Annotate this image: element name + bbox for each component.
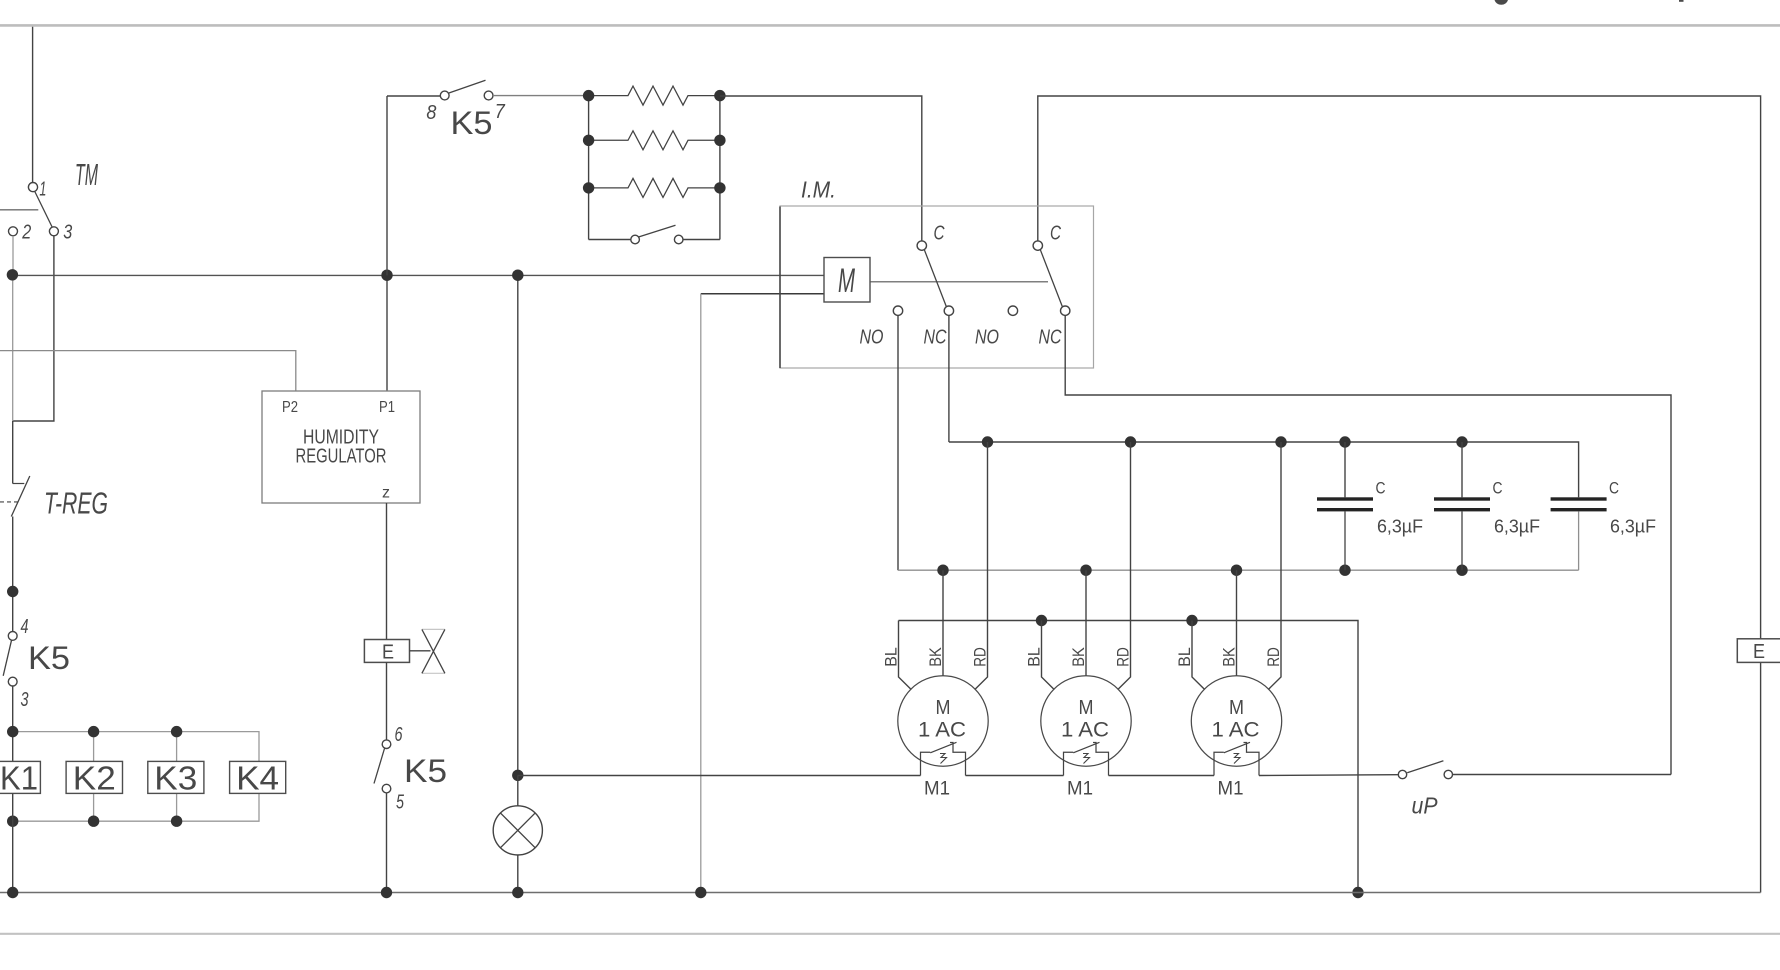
switch K5 contact 3 xyxy=(8,677,17,686)
bypass switch contact left xyxy=(631,235,640,244)
cam switch 2 contact NO xyxy=(1008,306,1017,315)
svg-text:1 AC: 1 AC xyxy=(1212,719,1260,742)
wire K3 bottom lead xyxy=(176,793,178,821)
svg-text:BL: BL xyxy=(1175,647,1194,667)
wire motor1 to motor2 xyxy=(966,775,1064,777)
svg-text:K5: K5 xyxy=(28,640,70,676)
junction resistor right bus low xyxy=(714,182,725,193)
svg-text:z: z xyxy=(382,485,390,502)
switch K5 contact 5 xyxy=(382,784,391,793)
svg-text:3: 3 xyxy=(21,689,29,711)
wire lamp to bottom bus xyxy=(517,855,519,893)
switch K5 contact 4 xyxy=(8,632,17,641)
svg-text:I.M.: I.M. xyxy=(801,177,836,203)
bypass switch blade xyxy=(639,225,676,237)
wire BK gray bus xyxy=(898,569,1579,571)
switch TM contact 3 xyxy=(49,227,58,236)
I.M. enclosure box xyxy=(780,206,1094,368)
wire motor 2 BK lead xyxy=(1085,570,1087,676)
junction RD bus motor3 xyxy=(1275,436,1286,447)
svg-text:M: M xyxy=(936,697,951,719)
svg-text:M: M xyxy=(1079,697,1094,719)
contact T-REG blade xyxy=(11,476,30,517)
wire motor 2 RD lead xyxy=(1118,442,1131,690)
svg-text:1 AC: 1 AC xyxy=(1061,719,1109,742)
switch TM blade 1-3 xyxy=(35,192,53,228)
wire motor 3 RD lead xyxy=(1268,442,1281,690)
svg-text:BL: BL xyxy=(882,647,901,667)
switch TM contact 1 xyxy=(28,183,37,192)
valve coil E xyxy=(364,640,409,664)
junction BK bus cap2 xyxy=(1456,565,1467,576)
svg-text:M1: M1 xyxy=(924,779,950,800)
wire main line to motor M of I.M. xyxy=(13,274,824,276)
wire K3 top lead xyxy=(176,732,178,762)
svg-text:K5: K5 xyxy=(451,105,493,141)
svg-text:7: 7 xyxy=(495,101,506,123)
switch K5 blade (4-3) xyxy=(3,640,11,676)
junction relay bottom bus K1 xyxy=(7,816,18,827)
wire motor M lower lead horizontal xyxy=(701,293,824,295)
svg-text:C: C xyxy=(1609,479,1619,498)
thermal protector motor 2 xyxy=(1064,742,1109,775)
cropped text remnant top right xyxy=(1495,0,1509,5)
wire NC1 to RD bus xyxy=(948,315,950,442)
capacitor C3 6.3uF xyxy=(1551,497,1607,570)
wire motor 3 BL lead xyxy=(1192,621,1205,690)
wire bottom bus xyxy=(0,892,1761,894)
switch uP contact left xyxy=(1398,770,1406,778)
junction relay top bus K2 xyxy=(88,726,99,737)
bypass switch contact right xyxy=(674,235,683,244)
lamp HL1 xyxy=(493,806,542,855)
junction bottom bus gray M lead xyxy=(695,887,706,898)
svg-text:6,3µF: 6,3µF xyxy=(1610,517,1656,537)
wire left rail 421 to T-REG xyxy=(12,421,14,484)
svg-text:TM: TM xyxy=(75,157,98,192)
junction node K5-8 rail / main line xyxy=(381,270,392,281)
junction resistor right bus top xyxy=(714,90,725,101)
humidity regulator U1 xyxy=(262,391,420,503)
wire resistor bypass switch left xyxy=(589,239,631,241)
valve body symbol xyxy=(422,629,445,673)
svg-text:8: 8 xyxy=(426,102,436,124)
motor M1 #1 (1 AC) xyxy=(898,676,988,766)
switch K5 blade (6-5) xyxy=(374,749,385,784)
cam switch 1 contact C xyxy=(917,241,926,250)
wire valve coil to valve body xyxy=(410,650,431,652)
junction bottom bus left rail xyxy=(7,887,18,898)
wire motor 3 BK lead xyxy=(1236,570,1238,676)
wire resistor bypass switch right xyxy=(683,239,720,241)
wire relay bottom bus xyxy=(13,793,259,821)
svg-text:P2: P2 xyxy=(282,399,298,416)
wire K5 contact 3 to relay bus xyxy=(12,686,14,761)
junction RD bus cap1 xyxy=(1339,436,1350,447)
junction BK bus motor3 xyxy=(1231,565,1242,576)
resistor R1 xyxy=(589,86,720,105)
resistor R3 xyxy=(589,178,720,197)
bottom border rule (frame) xyxy=(0,933,1780,935)
wire K5 contact 5 to bottom bus xyxy=(386,793,388,893)
svg-text:NC: NC xyxy=(1039,327,1062,349)
wire valve E to K5 contact 6 xyxy=(386,662,388,740)
wire right rail below E to bottom bus xyxy=(1760,662,1762,892)
wire motor 1 BL lead xyxy=(899,621,912,690)
junction node on left rail y588 xyxy=(7,586,18,597)
svg-text:6: 6 xyxy=(395,724,404,746)
wire uP to NC2 riser xyxy=(1453,774,1672,776)
svg-text:6,3µF: 6,3µF xyxy=(1494,517,1540,537)
junction RD bus motor1 xyxy=(982,436,993,447)
wire to K5 contact 8 xyxy=(387,95,440,97)
wire motor 2 BL lead xyxy=(1042,621,1055,690)
junction node A (left rail / main line) xyxy=(7,269,18,280)
wire TM contact 3 down and left xyxy=(13,236,54,421)
junction BL bus motor3 xyxy=(1186,615,1197,626)
svg-text:K5: K5 xyxy=(404,753,447,789)
wire NC2 to uP line xyxy=(1065,315,1671,774)
svg-text:1 AC: 1 AC xyxy=(918,719,966,742)
switch TM contact 2 xyxy=(9,227,18,236)
timer motor M box xyxy=(824,258,870,303)
junction BL bus motor2 xyxy=(1036,615,1047,626)
resistor R2 xyxy=(589,131,720,150)
cam switch 1 contact NO xyxy=(893,306,902,315)
wire RD top bus xyxy=(949,442,1579,497)
switch K5 blade (8-7) xyxy=(449,80,486,93)
wire junction to lamp xyxy=(517,775,519,806)
capacitor C1 6.3uF xyxy=(1317,442,1373,570)
svg-text:RD: RD xyxy=(1114,647,1133,667)
svg-text:C: C xyxy=(934,222,945,244)
heater/element E (right) xyxy=(1737,639,1780,663)
svg-text:E: E xyxy=(1753,641,1765,663)
svg-text:K4: K4 xyxy=(236,760,279,797)
junction resistor left bus mid xyxy=(583,135,594,146)
relay coil K4 xyxy=(230,760,286,797)
T-REG actuator dash-dot link xyxy=(0,501,21,503)
wire motor3 to uP switch xyxy=(1259,774,1398,777)
junction bottom bus K5-5 xyxy=(381,887,392,898)
junction BK bus motor2 xyxy=(1080,565,1091,576)
wire K2 bottom lead xyxy=(93,793,95,821)
wire K5 contact 7 to resistor bank xyxy=(493,95,589,97)
svg-text:BK: BK xyxy=(1220,647,1239,667)
svg-text:M: M xyxy=(838,262,855,300)
svg-text:uP: uP xyxy=(1412,793,1439,819)
junction node lamp branch / main line xyxy=(512,270,523,281)
junction relay top bus K1 xyxy=(7,726,18,737)
wire TM contact 2 down to junction xyxy=(12,236,14,276)
contact T-REG fixed tick xyxy=(13,483,25,485)
wire lamp branch vertical xyxy=(517,275,519,775)
wire K2 top lead xyxy=(93,732,95,762)
wire motor 1 BK lead xyxy=(942,570,944,676)
junction resistor left bus low xyxy=(583,182,594,193)
wire from top border to TM contact 1 xyxy=(32,27,34,183)
svg-text:RD: RD xyxy=(1264,647,1283,667)
svg-text:C: C xyxy=(1050,222,1061,244)
wire NO1 to BK bus xyxy=(897,315,899,570)
cam switch 1 contact NC xyxy=(944,306,953,315)
svg-text:2: 2 xyxy=(21,222,31,244)
motor M1 #2 (1 AC) xyxy=(1041,676,1131,766)
svg-text:BK: BK xyxy=(926,647,945,667)
junction node lamp branch / motor line xyxy=(512,770,523,781)
svg-text:RD: RD xyxy=(971,647,990,667)
wire relay top bus xyxy=(13,732,259,762)
cam switch 2 contact NC xyxy=(1061,306,1070,315)
wire top net to right rail xyxy=(1038,96,1761,639)
junction resistor right bus mid xyxy=(714,135,725,146)
svg-text:M: M xyxy=(1229,697,1244,719)
svg-text:5: 5 xyxy=(396,792,405,814)
thermal protector motor 3 xyxy=(1214,742,1259,775)
junction RD bus cap2 xyxy=(1456,436,1467,447)
junction relay bottom bus K2 xyxy=(88,816,99,827)
motor M1 #3 (1 AC) xyxy=(1191,676,1281,766)
svg-text:P1: P1 xyxy=(379,399,395,416)
wire left rail junction to 421 xyxy=(12,275,14,421)
svg-text:C: C xyxy=(1493,479,1503,498)
switch uP contact right xyxy=(1444,770,1452,778)
switch uP blade xyxy=(1407,761,1443,773)
relay coil K3 xyxy=(148,760,204,797)
resistor bank right bus xyxy=(719,96,721,240)
junction BK bus cap1 xyxy=(1339,565,1350,576)
junction RD bus motor2 xyxy=(1125,436,1136,447)
svg-text:M1: M1 xyxy=(1218,779,1244,800)
switch K5 contact 8 xyxy=(440,91,449,100)
relay coil K2 xyxy=(66,760,122,797)
cam switch 2 blade xyxy=(1040,250,1062,307)
switch K5 contact 6 xyxy=(382,740,391,749)
wire motor2 to motor3 xyxy=(1109,775,1215,777)
svg-text:NO: NO xyxy=(975,327,999,349)
svg-text:NO: NO xyxy=(860,327,884,349)
svg-text:K1: K1 xyxy=(0,760,38,797)
wire K1 lead to bottom bus xyxy=(12,793,14,892)
cam switch 1 blade xyxy=(924,250,946,307)
wire to humidity regulator P2 xyxy=(0,351,296,391)
wire BL bus to bottom bus xyxy=(899,621,1359,893)
svg-text:REGULATOR: REGULATOR xyxy=(296,446,387,468)
junction BK bus motor1 xyxy=(937,565,948,576)
wire motor M lower lead riser (gray) xyxy=(700,294,702,893)
junction BL bus at bottom bus xyxy=(1352,887,1363,898)
resistor bank left bus xyxy=(588,96,590,240)
svg-text:T-REG: T-REG xyxy=(44,486,108,521)
wire lamp junction to motor1 xyxy=(518,775,921,777)
svg-text:C: C xyxy=(1376,479,1386,498)
wire T-REG to K5 contact 4 xyxy=(12,517,14,632)
svg-text:NC: NC xyxy=(924,327,947,349)
junction relay bottom bus K3 xyxy=(171,816,182,827)
capacitor C2 6.3uF xyxy=(1434,442,1490,570)
switch K5 contact 7 xyxy=(484,91,493,100)
svg-text:BL: BL xyxy=(1025,647,1044,667)
wire humidity regulator z to valve E xyxy=(386,503,388,640)
wire motor 1 RD lead xyxy=(975,442,988,690)
junction bottom bus lamp xyxy=(512,887,523,898)
thermal protector motor 1 xyxy=(921,742,966,775)
svg-text:M1: M1 xyxy=(1067,779,1093,800)
svg-text:6,3µF: 6,3µF xyxy=(1377,517,1423,537)
cam switch 2 contact C xyxy=(1033,241,1042,250)
wire K5-8 rail up xyxy=(386,96,388,275)
wire resistor bank to cam switch C1 xyxy=(720,96,922,241)
mechanical link M to cams xyxy=(870,281,1048,283)
junction resistor left bus top xyxy=(583,90,594,101)
svg-text:3: 3 xyxy=(63,222,72,244)
svg-text:K3: K3 xyxy=(154,760,197,797)
top border rule (frame) xyxy=(0,24,1780,27)
svg-text:E: E xyxy=(382,642,394,664)
svg-text:K2: K2 xyxy=(73,760,116,797)
svg-text:1: 1 xyxy=(39,179,46,201)
junction relay top bus K3 xyxy=(171,726,182,737)
relay coil K1 xyxy=(0,760,40,797)
svg-text:4: 4 xyxy=(21,616,29,638)
svg-text:BK: BK xyxy=(1069,647,1088,667)
wire junction K5-8 rail down to P1 xyxy=(386,275,388,391)
wire stub left of TM blade xyxy=(0,209,38,211)
